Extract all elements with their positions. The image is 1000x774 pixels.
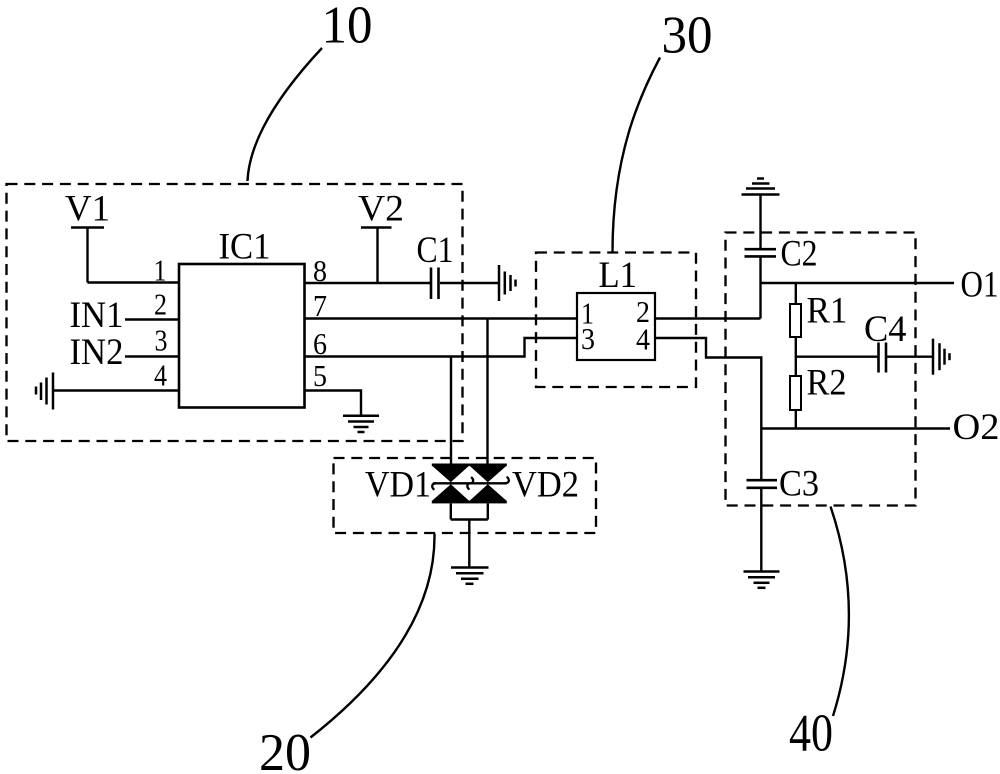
svg-text:20: 20 — [259, 724, 311, 774]
svg-text:8: 8 — [313, 253, 327, 288]
svg-text:4: 4 — [154, 358, 167, 393]
svg-text:R2: R2 — [807, 363, 847, 404]
svg-text:IC1: IC1 — [219, 227, 271, 268]
svg-text:C1: C1 — [417, 230, 454, 271]
svg-text:10: 10 — [322, 0, 373, 55]
svg-text:3: 3 — [155, 323, 168, 358]
svg-text:R1: R1 — [807, 291, 848, 332]
svg-text:6: 6 — [313, 326, 327, 361]
svg-text:O2: O2 — [953, 407, 1000, 448]
svg-text:O1: O1 — [961, 265, 999, 306]
svg-text:40: 40 — [789, 705, 833, 763]
svg-text:L1: L1 — [599, 255, 638, 296]
svg-text:1: 1 — [154, 253, 167, 288]
svg-text:2: 2 — [154, 287, 167, 322]
svg-text:IN2: IN2 — [70, 332, 124, 373]
svg-text:VD2: VD2 — [512, 465, 579, 506]
svg-text:IN1: IN1 — [70, 295, 124, 336]
svg-text:C2: C2 — [781, 234, 818, 275]
svg-text:V2: V2 — [358, 189, 404, 230]
svg-text:4: 4 — [636, 322, 650, 357]
svg-text:C3: C3 — [779, 464, 819, 505]
svg-text:C4: C4 — [864, 309, 907, 350]
svg-text:3: 3 — [581, 321, 595, 356]
svg-text:VD1: VD1 — [365, 465, 431, 506]
svg-text:V1: V1 — [65, 189, 110, 230]
svg-text:30: 30 — [662, 7, 713, 65]
svg-text:5: 5 — [313, 358, 327, 393]
svg-text:7: 7 — [313, 288, 327, 323]
